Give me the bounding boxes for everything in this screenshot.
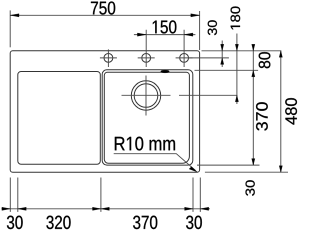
dim 370 right label [256,102,268,130]
dim 80 arrow lower / 370 top arrow (pointing up) [252,70,255,77]
dim 370 bottom arrow (pointing down) [252,159,255,166]
bottom dim 320 arrow right (pointing right) [93,207,101,210]
rim mark lens [161,70,170,73]
dim 80/370 shared line [252,45,254,166]
tap hole 3 [180,54,189,63]
drain circle inner [134,84,158,108]
dim 30 top arrow upper (outside, pointing down) [221,44,224,51]
R10 mm label [115,137,175,151]
tap hole 2 [142,54,151,63]
dim 30 top line [221,41,223,68]
tap hole 3 crosshair + extension up [176,30,193,67]
bottom dim 30 left label [7,216,23,229]
dim 180 line [236,34,238,105]
dim 750 label [91,1,115,14]
drain center extension right [179,94,237,96]
dim 30 top label [208,20,217,35]
bottom extension bowl-left [100,178,102,212]
bottom dim 30L arrow left (outside, pointing right) [2,207,10,210]
dim 30 bottom-right label [246,180,255,195]
dim 150 arrow left (outside) [137,33,146,36]
bottom extension bowl-right [192,178,194,212]
dim 480 line [280,51,282,172]
dim 480 label [285,98,297,125]
bottom dim 320 label [46,216,70,229]
dim 180 label [231,6,241,29]
bowl outer contour [102,70,193,165]
bottom dim 30L/320 shared arrow (pointing left) [18,207,26,210]
tap hole line extension right [188,57,229,59]
dim 480 arrow bottom (pointing down) [279,166,282,173]
tap hole 2 crosshair + extension up [138,30,155,67]
bottom extension sink-left [9,178,11,212]
sink bottom extension right [205,171,288,173]
dim 750 line [10,14,199,16]
bottom dim 370 arrow right / 30R shared (pointing right) [185,207,193,210]
tap hole 1 crosshair [100,49,117,67]
drain crosshair [122,76,171,116]
drain circle outer [131,81,160,110]
dim 150 line [134,34,196,36]
dim 30 top arrow lower (outside, pointing up) [221,58,224,65]
tap hole 1 [104,54,113,63]
sink outer rim [10,51,199,172]
bowl bottom extension right [197,164,260,166]
sink top edge extension right [202,50,282,52]
dim 80 label [259,52,271,68]
drainboard left rect [18,72,101,165]
R10 leader arrow [189,167,197,172]
bottom dim 370 arrow left (pointing left) [101,207,109,210]
bottom extension sink-right [199,178,201,212]
bottom dim line [2,208,211,210]
R10 leader line [114,154,196,171]
dim 150 arrow right (outside) [184,33,193,36]
bowl inner contour [104,72,189,163]
bottom dim 370 label [133,216,157,229]
bottom dim 30R arrow right (outside, pointing left) [200,207,208,210]
dim 750 arrow left [10,14,19,17]
dim 150 label [153,20,177,33]
dim 750 extension right [199,11,201,50]
bottom extension drainboard-left [17,178,19,212]
dim 180 arrow top (pointing down) [235,44,238,51]
dim 750 arrow right [191,14,200,17]
bowl top extension right [195,69,259,71]
dim 80 arrow upper (pointing down) [252,44,255,51]
bottom dim 30 right label [186,216,202,229]
dim 180 arrow bottom (pointing up) [235,95,238,102]
dim 750 extension left [9,10,11,47]
dim 480 arrow top (pointing up) [279,51,282,58]
